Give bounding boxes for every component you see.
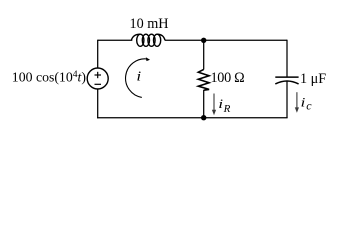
svg-text:100 Ω: 100 Ω [211, 70, 245, 86]
svg-text:i: i [301, 95, 306, 109]
svg-text:R: R [223, 103, 231, 115]
svg-text:i: i [136, 69, 141, 84]
svg-text:10 mH: 10 mH [130, 16, 169, 32]
svg-text:c: c [306, 99, 312, 113]
svg-text:1 μF: 1 μF [300, 71, 326, 87]
svg-text:i: i [218, 97, 223, 111]
